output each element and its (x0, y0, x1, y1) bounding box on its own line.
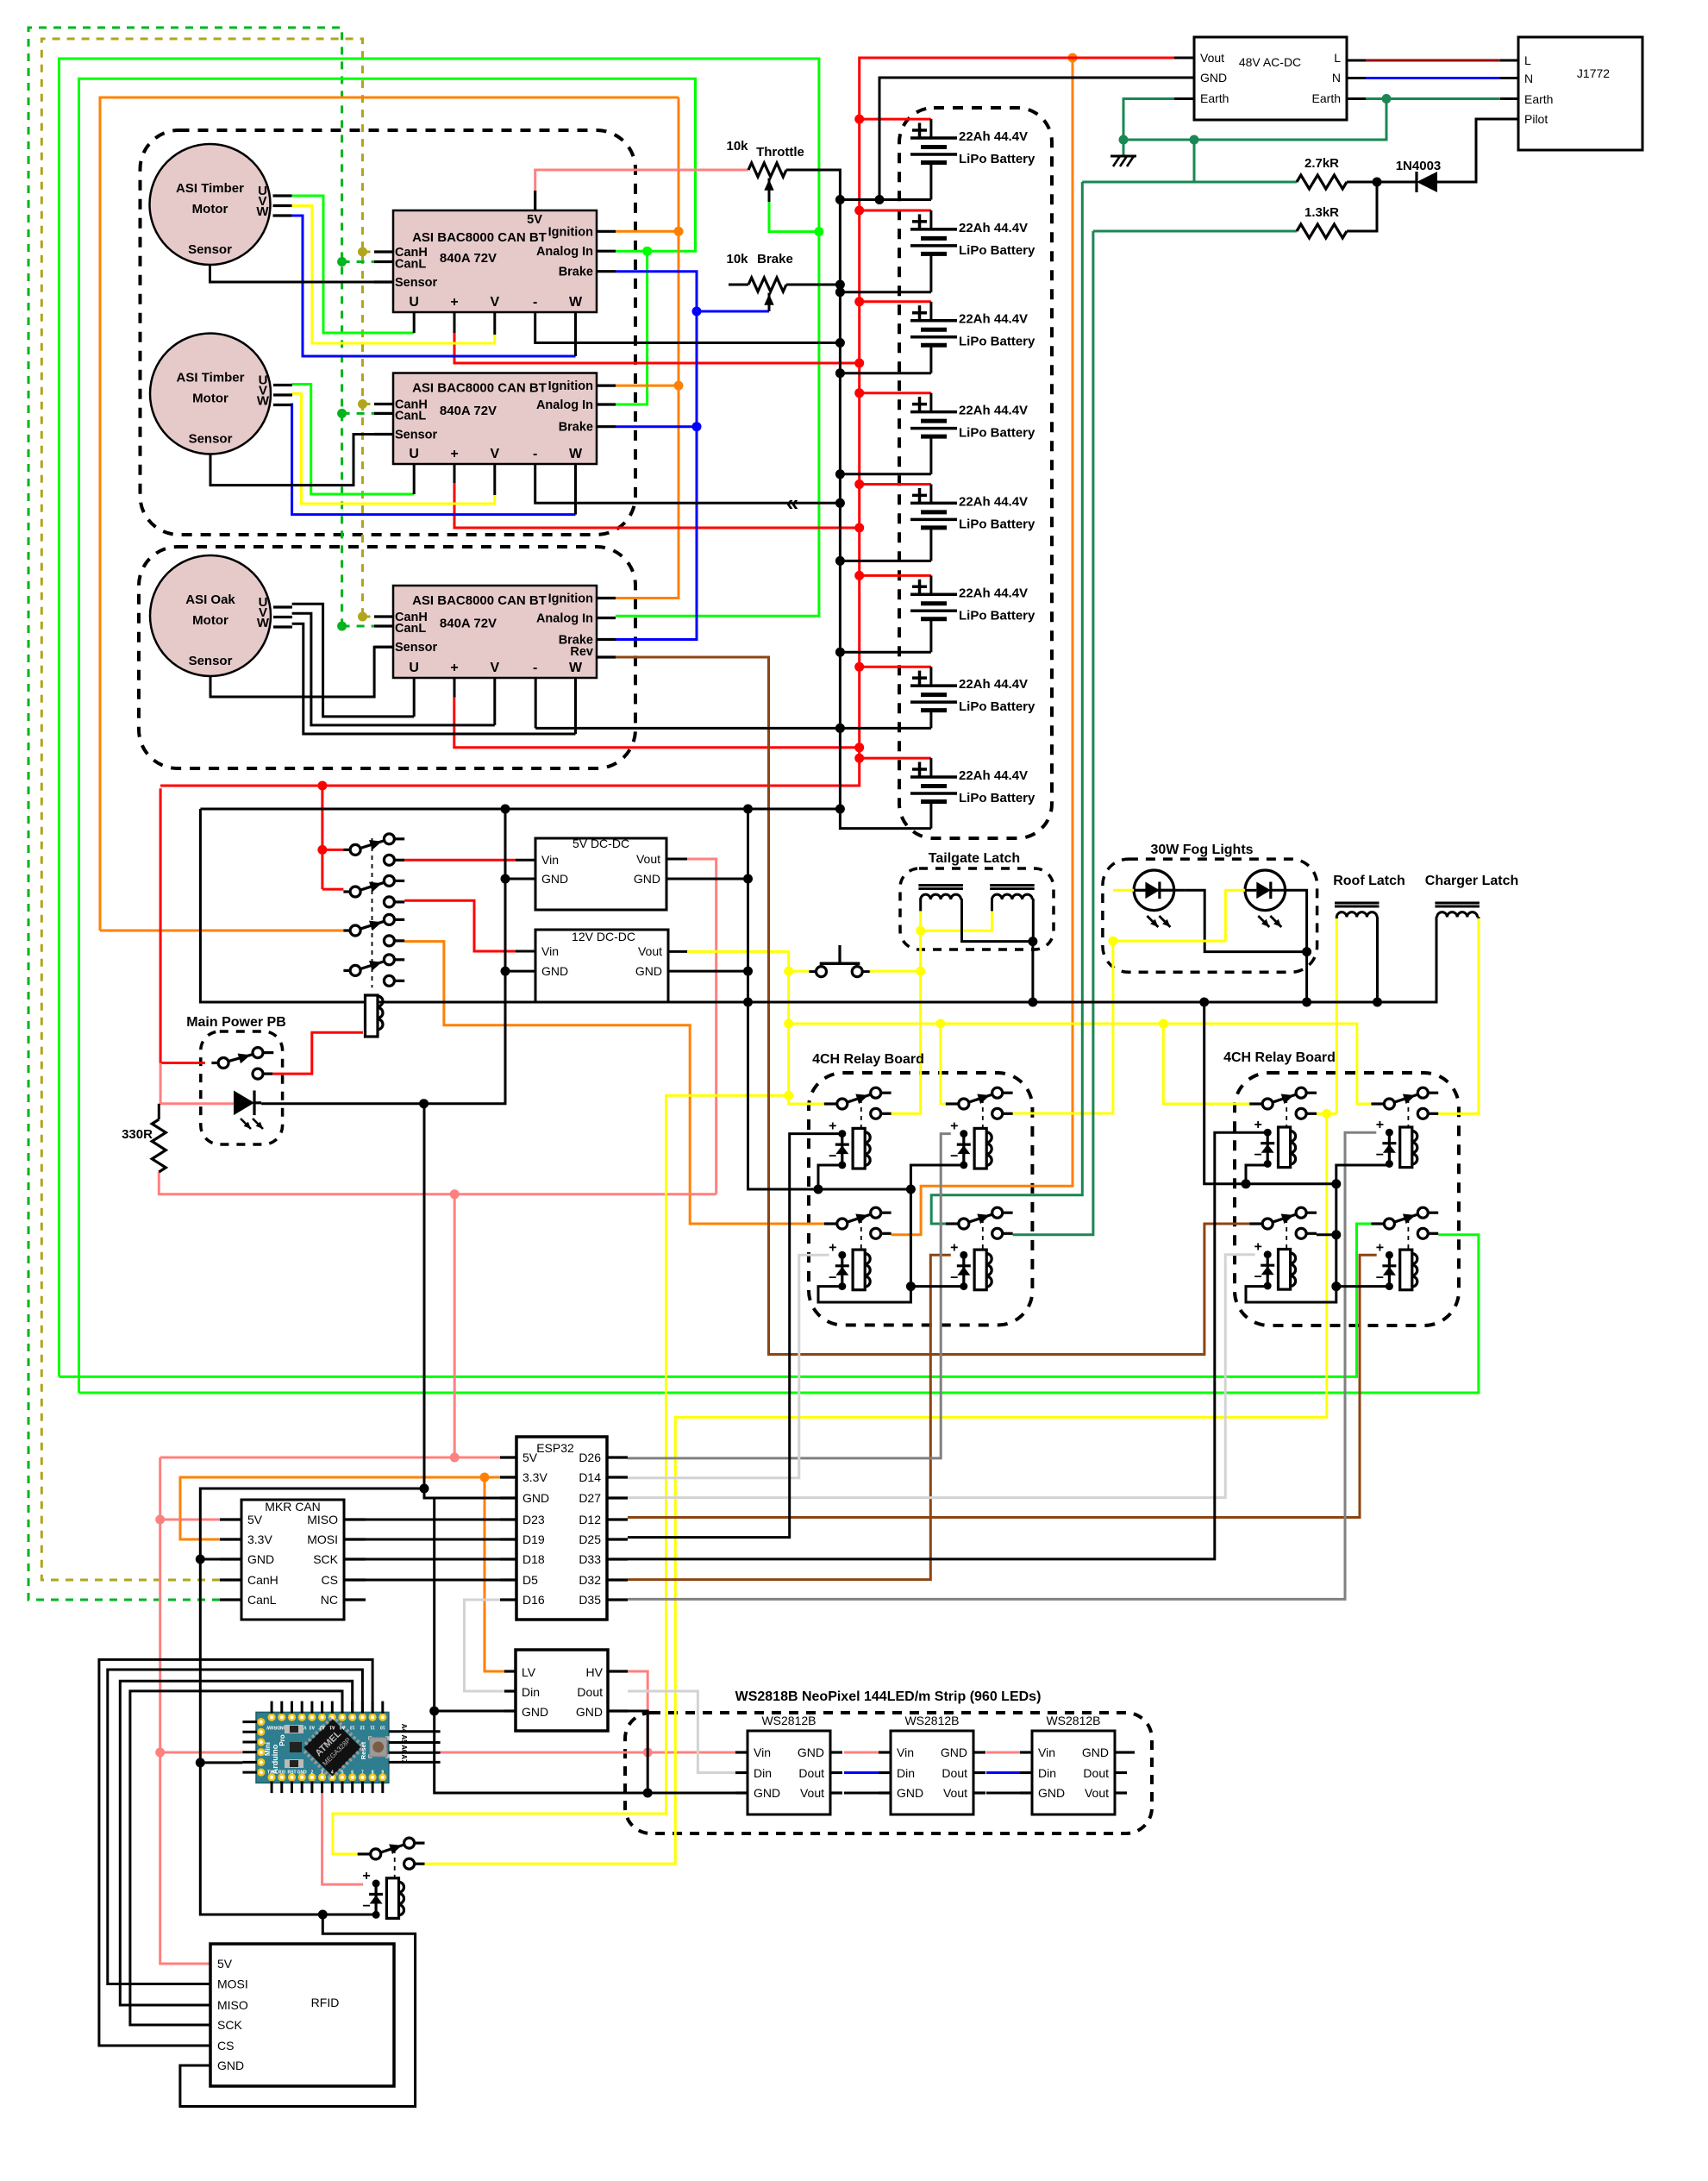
svg-text:J1772: J1772 (1577, 66, 1610, 80)
svg-text:GND: GND (635, 964, 662, 978)
svg-text:D5: D5 (522, 1573, 538, 1587)
svg-text:ASI BAC8000 CAN BT: ASI BAC8000 CAN BT (412, 381, 547, 396)
svg-text:Vout: Vout (1085, 1786, 1109, 1800)
svg-text:CanH: CanH (247, 1573, 278, 1587)
svg-text:Motor: Motor (192, 613, 228, 628)
svg-text:2: 2 (311, 1770, 314, 1776)
svg-text:22Ah 44.4V: 22Ah 44.4V (959, 312, 1028, 327)
svg-text:WS2812B: WS2812B (761, 1714, 816, 1727)
svg-text:−: − (829, 1270, 836, 1285)
svg-text:840A 72V: 840A 72V (440, 404, 497, 418)
svg-text:HV: HV (586, 1665, 604, 1679)
svg-text:V: V (490, 661, 499, 675)
svg-text:−: − (1254, 1270, 1262, 1285)
svg-text:Reset: Reset (360, 1741, 367, 1759)
svg-text:330R: 330R (122, 1127, 153, 1142)
svg-text:CanL: CanL (395, 258, 426, 272)
svg-text:840A 72V: 840A 72V (440, 251, 497, 266)
svg-text:5V: 5V (217, 1957, 233, 1971)
svg-text:3: 3 (321, 1770, 323, 1776)
svg-text:+: + (950, 1119, 958, 1134)
svg-text:CS: CS (322, 1573, 338, 1587)
svg-text:Earth: Earth (1312, 91, 1341, 105)
svg-text:«: « (786, 490, 798, 516)
svg-text:ESP32: ESP32 (536, 1441, 574, 1455)
svg-text:GND: GND (522, 1705, 548, 1719)
svg-text:Brake: Brake (559, 266, 593, 279)
svg-text:5: 5 (341, 1770, 344, 1776)
svg-text:CanL: CanL (395, 409, 426, 423)
svg-text:10: 10 (380, 1725, 385, 1730)
svg-text:LiPo Battery: LiPo Battery (959, 152, 1035, 166)
svg-text:Analog In: Analog In (536, 245, 593, 259)
svg-text:A6: A6 (400, 1745, 408, 1754)
svg-text:5V: 5V (522, 1451, 538, 1464)
svg-text:Charger Latch: Charger Latch (1425, 874, 1518, 888)
svg-text:D26: D26 (579, 1451, 601, 1464)
svg-text:9: 9 (381, 1770, 384, 1776)
svg-text:Analog In: Analog In (536, 398, 593, 412)
svg-text:A0: A0 (340, 1725, 346, 1730)
svg-text:ASI Timber: ASI Timber (177, 371, 245, 385)
svg-text:GND: GND (576, 1705, 603, 1719)
svg-text:7: 7 (361, 1770, 364, 1776)
svg-text:GND: GND (941, 1745, 967, 1759)
svg-text:Dout: Dout (1083, 1766, 1109, 1780)
svg-text:D33: D33 (579, 1552, 601, 1566)
svg-text:+: + (450, 295, 458, 310)
svg-text:Earth: Earth (1524, 92, 1553, 106)
svg-text:12V DC-DC: 12V DC-DC (572, 930, 635, 943)
svg-text:22Ah 44.4V: 22Ah 44.4V (959, 494, 1028, 509)
svg-text:Ignition: Ignition (548, 592, 593, 606)
svg-text:Roof Latch: Roof Latch (1333, 874, 1405, 888)
svg-text:L: L (1524, 53, 1531, 67)
svg-text:−: − (1254, 1148, 1262, 1163)
svg-text:CS: CS (217, 2039, 234, 2053)
svg-text:GND: GND (217, 2059, 244, 2072)
svg-text:22Ah 44.4V: 22Ah 44.4V (959, 768, 1028, 783)
svg-text:A7: A7 (400, 1754, 408, 1764)
svg-text:V: V (490, 295, 499, 310)
svg-text:30W Fog Lights: 30W Fog Lights (1150, 843, 1253, 857)
svg-text:A5: A5 (400, 1734, 408, 1744)
svg-text:Dout: Dout (942, 1766, 967, 1780)
svg-text:22Ah 44.4V: 22Ah 44.4V (959, 586, 1028, 600)
svg-text:Vin: Vin (754, 1745, 771, 1759)
svg-text:ASI BAC8000 CAN BT: ASI BAC8000 CAN BT (412, 593, 547, 608)
svg-text:4CH Relay Board: 4CH Relay Board (812, 1052, 924, 1067)
svg-text:−: − (1376, 1148, 1384, 1163)
svg-text:Vout: Vout (638, 944, 662, 958)
svg-text:WS2812B: WS2812B (904, 1714, 959, 1727)
svg-text:10k: 10k (726, 252, 748, 266)
svg-text:GND: GND (634, 872, 660, 886)
svg-text:CanL: CanL (247, 1593, 277, 1607)
svg-text:22Ah 44.4V: 22Ah 44.4V (959, 221, 1028, 235)
svg-text:Sensor: Sensor (188, 242, 232, 257)
svg-text:MOSI: MOSI (307, 1532, 338, 1546)
svg-text:GND: GND (798, 1745, 824, 1759)
svg-text:Pro: Pro (278, 1734, 286, 1745)
svg-text:U: U (409, 661, 419, 675)
svg-text:Ignition: Ignition (548, 225, 593, 239)
svg-text:Sensor: Sensor (189, 432, 233, 447)
svg-text:+: + (362, 1869, 370, 1883)
svg-text:D27: D27 (579, 1491, 601, 1505)
svg-text:Brake: Brake (559, 421, 593, 435)
svg-text:Analog In: Analog In (536, 612, 593, 626)
svg-text:LiPo Battery: LiPo Battery (959, 791, 1035, 805)
svg-text:Din: Din (1038, 1766, 1056, 1780)
svg-text:Vin: Vin (541, 944, 559, 958)
svg-text:Motor: Motor (192, 392, 228, 406)
svg-text:SCK: SCK (313, 1552, 338, 1566)
svg-text:8: 8 (372, 1770, 374, 1776)
svg-text:Throttle: Throttle (756, 145, 804, 160)
svg-text:840A 72V: 840A 72V (440, 617, 497, 631)
svg-text:SCK: SCK (217, 2018, 242, 2032)
svg-text:+: + (1254, 1118, 1262, 1132)
svg-text:LiPo Battery: LiPo Battery (959, 517, 1035, 531)
svg-text:GND: GND (522, 1491, 549, 1505)
svg-text:+: + (1376, 1240, 1384, 1255)
svg-text:2.7kR: 2.7kR (1304, 156, 1339, 171)
svg-text:1.3kR: 1.3kR (1304, 205, 1339, 220)
svg-text:WS2818B NeoPixel 144LED/m Stri: WS2818B NeoPixel 144LED/m Strip (960 LED… (735, 1689, 1042, 1704)
svg-text:Main Power PB: Main Power PB (186, 1015, 286, 1030)
svg-text:W: W (256, 204, 269, 219)
svg-text:Vin: Vin (541, 853, 559, 867)
svg-text:Sensor: Sensor (395, 276, 438, 290)
svg-text:−: − (1376, 1270, 1384, 1285)
svg-text:ASI Oak: ASI Oak (185, 592, 235, 607)
svg-text:GND: GND (1038, 1786, 1065, 1800)
svg-text:GND: GND (897, 1786, 923, 1800)
svg-text:−: − (950, 1150, 958, 1164)
svg-text:MISO: MISO (217, 1998, 248, 2012)
svg-text:13: 13 (350, 1725, 355, 1730)
svg-text:−: − (829, 1150, 836, 1164)
svg-text:Tailgate Latch: Tailgate Latch (929, 851, 1020, 866)
svg-text:D19: D19 (522, 1532, 545, 1546)
svg-text:4: 4 (331, 1770, 334, 1776)
svg-text:Rev: Rev (570, 645, 593, 659)
svg-text:W: W (569, 295, 583, 310)
svg-text:ASI Timber: ASI Timber (176, 181, 244, 196)
svg-text:Vout: Vout (800, 1786, 824, 1800)
svg-text:N: N (1332, 71, 1341, 85)
svg-text:5V: 5V (527, 213, 542, 227)
svg-text:5V: 5V (247, 1513, 263, 1526)
svg-text:4CH Relay Board: 4CH Relay Board (1223, 1050, 1336, 1065)
svg-text:WS2812B: WS2812B (1046, 1714, 1100, 1727)
svg-text:−: − (950, 1270, 958, 1285)
svg-text:+: + (450, 447, 458, 461)
svg-text:1N4003: 1N4003 (1396, 159, 1442, 173)
svg-text:Din: Din (522, 1685, 540, 1699)
svg-text:Vout: Vout (1200, 51, 1224, 65)
svg-text:MOSI: MOSI (217, 1977, 248, 1991)
svg-text:D35: D35 (579, 1593, 601, 1607)
svg-text:Brake: Brake (757, 252, 793, 266)
svg-text:Pilot: Pilot (1524, 112, 1548, 126)
svg-text:GND: GND (247, 1552, 274, 1566)
svg-text:LiPo Battery: LiPo Battery (959, 243, 1035, 258)
svg-text:W: W (257, 394, 270, 409)
svg-text:+: + (829, 1119, 836, 1134)
svg-text:+: + (950, 1240, 958, 1255)
svg-text:GND: GND (1082, 1745, 1109, 1759)
svg-text:RFID: RFID (311, 1996, 340, 2009)
svg-text:RST: RST (288, 1770, 297, 1776)
svg-text:+: + (1254, 1240, 1262, 1255)
svg-text:+: + (450, 661, 458, 675)
svg-text:+: + (829, 1240, 836, 1255)
svg-text:Vout: Vout (943, 1786, 967, 1800)
svg-text:LV: LV (522, 1665, 536, 1679)
svg-text:Sensor: Sensor (395, 429, 438, 442)
svg-text:W: W (569, 447, 583, 461)
svg-text:A2: A2 (319, 1725, 325, 1730)
svg-text:−: − (362, 1899, 370, 1914)
svg-text:Earth: Earth (1200, 91, 1229, 105)
svg-text:11: 11 (370, 1725, 375, 1730)
svg-text:V: V (490, 447, 499, 461)
svg-text:D14: D14 (579, 1470, 601, 1484)
svg-text:3.3V: 3.3V (247, 1532, 272, 1546)
svg-text:D18: D18 (522, 1552, 545, 1566)
svg-text:Sensor: Sensor (395, 641, 438, 655)
svg-text:CanL: CanL (395, 622, 426, 636)
svg-text:-: - (533, 447, 537, 461)
svg-text:A3: A3 (309, 1725, 315, 1730)
svg-text:Vin: Vin (897, 1745, 914, 1759)
svg-text:-: - (533, 661, 537, 675)
svg-text:12: 12 (360, 1725, 365, 1730)
svg-text:Sensor: Sensor (189, 654, 233, 668)
svg-text:Ignition: Ignition (548, 379, 593, 393)
svg-text:GND: GND (541, 964, 568, 978)
svg-text:GND: GND (1200, 71, 1227, 85)
svg-text:3.3V: 3.3V (522, 1470, 547, 1484)
svg-text:D25: D25 (579, 1532, 601, 1546)
svg-text:D23: D23 (522, 1513, 545, 1526)
svg-text:22Ah 44.4V: 22Ah 44.4V (959, 129, 1028, 144)
svg-text:U: U (409, 295, 419, 310)
svg-text:LiPo Battery: LiPo Battery (959, 699, 1035, 714)
svg-text:Mini: Mini (264, 1742, 272, 1756)
svg-text:GND: GND (297, 1770, 308, 1776)
svg-text:NC: NC (321, 1593, 338, 1607)
svg-text:D12: D12 (579, 1513, 601, 1526)
svg-text:LiPo Battery: LiPo Battery (959, 335, 1035, 349)
svg-text:LiPo Battery: LiPo Battery (959, 426, 1035, 441)
svg-text:U: U (409, 447, 419, 461)
svg-text:Motor: Motor (192, 202, 228, 216)
svg-text:A4: A4 (400, 1724, 408, 1733)
svg-text:W: W (569, 661, 583, 675)
svg-text:10k: 10k (726, 139, 748, 154)
svg-text:6: 6 (351, 1770, 353, 1776)
svg-text:L: L (1334, 51, 1341, 65)
svg-text:Vout: Vout (636, 852, 660, 866)
svg-text:Arduino: Arduino (271, 1744, 279, 1774)
svg-text:Vin: Vin (1038, 1745, 1055, 1759)
svg-text:MKR CAN: MKR CAN (265, 1500, 321, 1514)
svg-text:D32: D32 (579, 1573, 601, 1587)
svg-text:22Ah 44.4V: 22Ah 44.4V (959, 677, 1028, 692)
svg-text:A1: A1 (329, 1725, 335, 1730)
svg-text:ASI BAC8000 CAN BT: ASI BAC8000 CAN BT (412, 230, 547, 245)
svg-text:22Ah 44.4V: 22Ah 44.4V (959, 404, 1028, 418)
svg-text:GND: GND (754, 1786, 780, 1800)
svg-text:-: - (533, 295, 537, 310)
svg-text:W: W (257, 616, 270, 630)
svg-text:Din: Din (754, 1766, 772, 1780)
svg-text:MISO: MISO (307, 1513, 338, 1526)
svg-text:+: + (1376, 1118, 1384, 1132)
svg-text:Din: Din (897, 1766, 915, 1780)
svg-text:5V DC-DC: 5V DC-DC (572, 837, 629, 850)
svg-text:GND: GND (541, 872, 568, 886)
svg-text:48V AC-DC: 48V AC-DC (1239, 55, 1301, 69)
svg-text:D16: D16 (522, 1593, 545, 1607)
svg-text:Dout: Dout (577, 1685, 603, 1699)
svg-text:LiPo Battery: LiPo Battery (959, 608, 1035, 623)
svg-text:RAW: RAW (266, 1725, 277, 1730)
svg-text:Dout: Dout (798, 1766, 824, 1780)
svg-text:N: N (1524, 72, 1533, 85)
